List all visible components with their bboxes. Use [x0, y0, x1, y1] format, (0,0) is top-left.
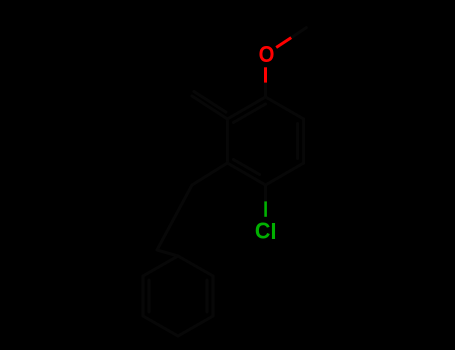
Cl-ring bond (green half)	[264, 201, 267, 216]
bond ring-top to O (black half)	[264, 83, 267, 97]
benzene ring (main, 1-Cl-4-OMe)	[227, 97, 303, 185]
lower-left phenyl ring	[143, 256, 213, 336]
double bond inner lines	[296, 124, 299, 159]
left substituent chain	[192, 96, 227, 119]
svg-text:C: C	[255, 218, 271, 244]
svg-text:l: l	[270, 219, 276, 244]
svg-text:O: O	[259, 41, 275, 68]
methoxy O-CH3 bond (red half)	[276, 38, 291, 48]
bond O-methyl (black half)	[291, 28, 306, 38]
bond ring-bottom to Cl (black half)	[264, 185, 267, 201]
O-ring bond (red half)	[264, 67, 267, 82]
double bond inner line (exocyclic)	[194, 92, 226, 113]
